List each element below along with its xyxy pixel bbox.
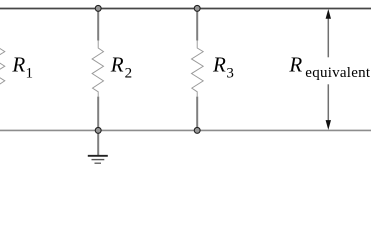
svg-text:R: R — [212, 52, 226, 76]
svg-text:2: 2 — [125, 65, 133, 81]
svg-text:R: R — [110, 52, 124, 76]
svg-text:1: 1 — [26, 65, 34, 81]
svg-text:R: R — [11, 52, 25, 76]
svg-text:R: R — [288, 52, 302, 76]
svg-text:3: 3 — [226, 65, 234, 81]
svg-text:equivalent: equivalent — [305, 65, 371, 81]
